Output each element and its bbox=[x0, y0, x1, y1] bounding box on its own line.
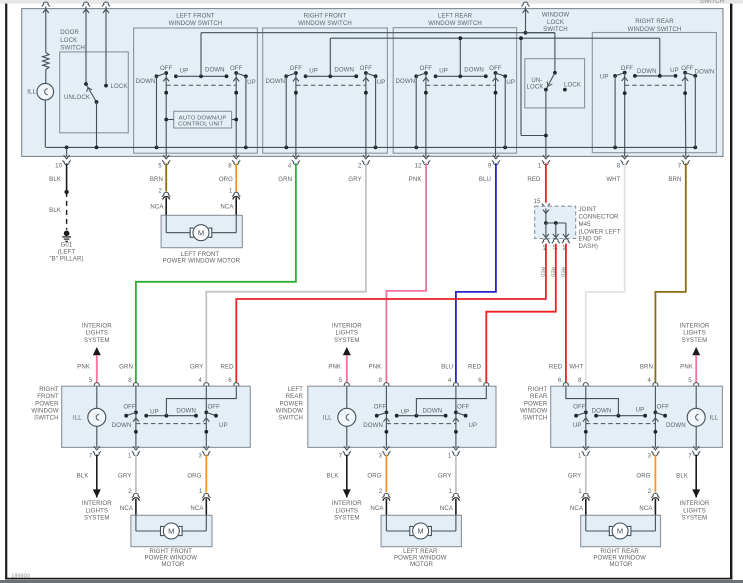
RR left pole contact bbox=[584, 411, 588, 415]
svg-text:RED: RED bbox=[527, 176, 541, 183]
LF switch mechanical link bbox=[166, 84, 236, 86]
svg-text:3: 3 bbox=[198, 452, 202, 459]
window lock branch junction bbox=[519, 36, 523, 40]
svg-text:POWER: POWER bbox=[524, 400, 548, 407]
LR pin 1 bbox=[453, 446, 459, 450]
svg-text:LIGHTS: LIGHTS bbox=[683, 330, 706, 337]
svg-text:DOWN: DOWN bbox=[464, 66, 484, 73]
svg-text:M: M bbox=[168, 527, 174, 536]
svg-text:BLK: BLK bbox=[49, 176, 61, 183]
assembly pin 9 at x=495.9 bbox=[493, 155, 499, 159]
svg-text:1: 1 bbox=[199, 488, 203, 495]
assembly pin 2 at x=365.9 bbox=[363, 155, 369, 159]
RF left pole arrow bbox=[133, 418, 139, 422]
svg-text:DOWN: DOWN bbox=[176, 408, 196, 415]
svg-text:DOWN: DOWN bbox=[265, 78, 285, 85]
window lock bottom contact bbox=[544, 88, 548, 92]
LR switch left pole contact bbox=[424, 71, 428, 75]
window lock feed wire bbox=[525, 9, 527, 33]
joint connector internal feed bbox=[543, 210, 549, 214]
LR motor wiring bbox=[385, 515, 387, 531]
control unit right dot bbox=[234, 118, 238, 122]
RF feed riser bbox=[166, 386, 236, 416]
RR right up contact bbox=[674, 74, 678, 78]
RF switch right pole wire bbox=[365, 73, 367, 156]
wire RED joint to RF switch bbox=[236, 244, 546, 384]
RR motor NCA wire right bbox=[654, 499, 656, 516]
svg-text:2: 2 bbox=[358, 162, 362, 169]
svg-text:8: 8 bbox=[379, 377, 383, 384]
left page border bbox=[5, 4, 7, 580]
svg-text:OFF: OFF bbox=[207, 404, 220, 411]
top connector pin unlock bbox=[82, 2, 90, 6]
RR left pole contact bbox=[623, 71, 627, 75]
RF switch right down contact bbox=[354, 74, 358, 78]
svg-text:1: 1 bbox=[229, 187, 233, 194]
svg-text:6: 6 bbox=[558, 377, 562, 384]
wire GRY LR to motor bbox=[455, 455, 457, 493]
svg-text:PNK: PNK bbox=[680, 363, 693, 370]
interior lights system RF bottom bbox=[96, 455, 98, 498]
RR left up contact bbox=[613, 74, 617, 78]
wire RED joint to LR switch bbox=[486, 244, 556, 384]
wire BLK dashed to ground bbox=[66, 192, 68, 230]
svg-text:ILL: ILL bbox=[73, 415, 82, 422]
svg-text:ILL: ILL bbox=[323, 415, 332, 422]
LR left pole dot bbox=[385, 430, 389, 434]
door lock switch output wire bbox=[96, 102, 98, 147]
LF switch right pole dot bbox=[234, 91, 238, 95]
ground bus wire bbox=[46, 146, 696, 148]
wire WHT pin8 to RR switch bbox=[586, 163, 625, 383]
svg-text:WINDOW: WINDOW bbox=[31, 408, 58, 415]
RF ILL wire bbox=[96, 386, 98, 447]
RR left pole dot bbox=[623, 91, 627, 95]
svg-text:UP: UP bbox=[469, 422, 478, 429]
bus junction LR up bbox=[503, 146, 507, 150]
svg-text:4: 4 bbox=[198, 377, 202, 384]
wire BRN pin7 to RR switch bbox=[655, 163, 685, 383]
svg-text:SYSTEM: SYSTEM bbox=[682, 514, 708, 521]
RR feed riser bbox=[566, 386, 619, 416]
ground splice bbox=[64, 190, 68, 194]
svg-text:WINDOW: WINDOW bbox=[520, 408, 547, 415]
svg-text:2: 2 bbox=[128, 488, 132, 495]
LR right pole contact bbox=[454, 411, 458, 415]
RF common contact A bbox=[144, 414, 148, 418]
svg-text:WINDOW SWITCH: WINDOW SWITCH bbox=[428, 20, 482, 27]
RF left lever bbox=[126, 412, 136, 415]
RF right pole contact bbox=[204, 411, 208, 415]
bottom gray strip bbox=[0, 580, 743, 583]
motor M RR bbox=[609, 526, 612, 535]
svg-text:RED: RED bbox=[221, 363, 235, 370]
RR right lever contact bbox=[663, 414, 667, 418]
assembly pin 5 at x=166.2 bbox=[163, 155, 169, 159]
illumination resistor bbox=[45, 9, 47, 53]
svg-text:OFF: OFF bbox=[420, 65, 433, 72]
LR ILL lamp bbox=[338, 408, 356, 426]
svg-text:DOWN: DOWN bbox=[112, 422, 132, 429]
LR common contact A bbox=[395, 414, 399, 418]
RF switch right pole arrow bbox=[363, 78, 369, 82]
window lock switch box bbox=[525, 59, 585, 108]
LR pin 3 bbox=[383, 446, 389, 450]
svg-text:GRY: GRY bbox=[568, 472, 581, 479]
svg-text:BRN: BRN bbox=[150, 176, 163, 183]
assembly pin 4 at x=295.9 bbox=[293, 155, 299, 159]
RR ILL lamp bbox=[687, 408, 705, 426]
svg-text:INTERIOR: INTERIOR bbox=[332, 322, 362, 329]
svg-text:UP: UP bbox=[377, 79, 386, 86]
svg-text:OFF: OFF bbox=[573, 404, 586, 411]
RR power window switch box bbox=[551, 386, 723, 447]
svg-text:RIGHT: RIGHT bbox=[39, 386, 59, 393]
svg-text:SWITCH: SWITCH bbox=[700, 0, 724, 5]
RR common contact B bbox=[643, 414, 647, 418]
RR mechanical link bbox=[586, 423, 656, 425]
svg-text:15: 15 bbox=[534, 198, 541, 205]
svg-text:5: 5 bbox=[339, 377, 343, 384]
svg-text:INTERIOR: INTERIOR bbox=[332, 500, 362, 507]
LR switch left down contact bbox=[414, 74, 418, 78]
wire BLU pin9 to LR switch bbox=[456, 163, 496, 383]
RR mechanical link bbox=[625, 84, 685, 86]
control unit right stub bbox=[232, 119, 237, 121]
svg-text:GRN: GRN bbox=[278, 176, 292, 183]
svg-text:BRN: BRN bbox=[668, 176, 681, 183]
svg-text:7: 7 bbox=[688, 452, 692, 459]
svg-text:UP: UP bbox=[600, 74, 609, 81]
svg-text:LEFT FRONT: LEFT FRONT bbox=[176, 13, 215, 20]
svg-text:OFF: OFF bbox=[457, 404, 470, 411]
RF mechanical link bbox=[136, 423, 206, 425]
svg-text:NCA: NCA bbox=[440, 505, 454, 512]
LR left lever contact bbox=[375, 414, 379, 418]
svg-text:UP: UP bbox=[670, 67, 679, 74]
control unit left stub bbox=[166, 119, 174, 121]
svg-text:RIGHT FRONT: RIGHT FRONT bbox=[304, 13, 347, 20]
wire GRY RF to motor bbox=[135, 455, 137, 493]
svg-text:LEFT: LEFT bbox=[288, 386, 303, 393]
LR motor NCA wire right bbox=[455, 499, 457, 516]
svg-text:NCA: NCA bbox=[150, 203, 164, 210]
LR switch left pole dot bbox=[424, 91, 428, 95]
bus junction RF down bbox=[284, 146, 288, 150]
svg-text:4: 4 bbox=[448, 377, 452, 384]
svg-text:WINDOW SWITCH: WINDOW SWITCH bbox=[169, 20, 223, 27]
feed rail 1 junction bbox=[524, 31, 528, 35]
LR right lever contact bbox=[464, 414, 468, 418]
svg-text:UP: UP bbox=[506, 79, 515, 86]
top connector pin lock bbox=[102, 2, 110, 6]
assembly pin 8 at x=236.2 bbox=[233, 155, 239, 159]
svg-text:BRN: BRN bbox=[640, 363, 653, 370]
assembly pin 12 at x=426.1 bbox=[423, 155, 429, 159]
bus junction RR up bbox=[613, 146, 617, 150]
RF switch mechanical link bbox=[296, 84, 366, 86]
RR ILL wire bbox=[695, 386, 697, 447]
left rear window switch box bbox=[393, 28, 516, 154]
svg-text:ORG: ORG bbox=[219, 176, 233, 183]
svg-text:SYSTEM: SYSTEM bbox=[84, 514, 110, 521]
svg-text:1: 1 bbox=[538, 162, 542, 169]
RF motor wiring bbox=[135, 515, 137, 531]
RF right pole wire bbox=[205, 386, 207, 447]
bus junction RR down bbox=[693, 146, 697, 150]
LR switch mechanical link bbox=[426, 84, 496, 86]
svg-text:RED: RED bbox=[549, 363, 563, 370]
feed rail 1 bbox=[201, 32, 555, 34]
svg-text:NCA: NCA bbox=[190, 505, 204, 512]
svg-text:UP: UP bbox=[247, 79, 256, 86]
RR motor NCA wire left bbox=[585, 499, 587, 516]
LR switch left switch lever bbox=[416, 73, 426, 76]
svg-text:(LEFT: (LEFT bbox=[58, 249, 76, 256]
RF switch riser junction bbox=[328, 74, 332, 78]
RR down contact wire bbox=[694, 76, 696, 147]
top connector pin illumination feed bbox=[42, 2, 50, 6]
auto down/up control unit box bbox=[174, 111, 232, 128]
svg-text:OFF: OFF bbox=[621, 65, 634, 72]
svg-text:DOOR: DOOR bbox=[60, 29, 79, 36]
svg-text:PNK: PNK bbox=[409, 176, 422, 183]
svg-text:2: 2 bbox=[379, 488, 383, 495]
RR right pole wire bbox=[684, 73, 687, 157]
wire GRN pin4 to RF switch bbox=[136, 163, 296, 383]
RR riser junction bbox=[617, 414, 621, 418]
svg-text:CONNECTOR: CONNECTOR bbox=[579, 214, 620, 221]
svg-text:1: 1 bbox=[578, 452, 582, 459]
svg-text:12: 12 bbox=[415, 162, 422, 169]
RR right pole dot bbox=[683, 91, 687, 95]
svg-text:ORG: ORG bbox=[187, 472, 201, 479]
svg-text:ILL: ILL bbox=[710, 415, 719, 422]
svg-text:M: M bbox=[417, 527, 423, 536]
left front window switch box bbox=[134, 28, 258, 153]
LR ILL wire bbox=[346, 386, 348, 447]
svg-text:OFF: OFF bbox=[123, 404, 136, 411]
RR right pole dot bbox=[654, 430, 658, 434]
RR right pole wire bbox=[654, 386, 656, 447]
RF left pole wire bbox=[135, 386, 137, 447]
svg-text:8: 8 bbox=[128, 377, 132, 384]
bus junction LF up bbox=[244, 146, 248, 150]
svg-text:JOINT: JOINT bbox=[579, 206, 597, 213]
svg-text:RED: RED bbox=[561, 267, 566, 278]
LF switch right up contact bbox=[244, 74, 248, 78]
svg-text:OFF: OFF bbox=[657, 404, 670, 411]
wire ORG pin8 to LF motor bbox=[235, 163, 237, 191]
assembly pin 8 at x=624.7 bbox=[622, 155, 628, 159]
svg-text:LIGHTS: LIGHTS bbox=[335, 330, 358, 337]
svg-text:DOWN: DOWN bbox=[592, 408, 612, 415]
svg-text:ILL: ILL bbox=[27, 89, 36, 96]
svg-text:MOTOR: MOTOR bbox=[410, 561, 434, 568]
LR switch up contact bbox=[434, 74, 438, 78]
svg-text:WINDOW SWITCH: WINDOW SWITCH bbox=[628, 26, 682, 33]
svg-text:WINDOW: WINDOW bbox=[276, 408, 303, 415]
svg-text:BLU: BLU bbox=[479, 176, 491, 183]
svg-text:REAR: REAR bbox=[530, 393, 548, 400]
RF switch left pole contact bbox=[294, 71, 298, 75]
RR pin 7 bbox=[693, 446, 699, 450]
svg-text:GRY: GRY bbox=[348, 176, 361, 183]
svg-text:UP: UP bbox=[180, 68, 189, 75]
ground G01 bbox=[64, 231, 70, 237]
LR switch right pole wire bbox=[495, 73, 497, 156]
LR switch right pole contact bbox=[494, 71, 498, 75]
RR up contact wire bbox=[614, 76, 616, 147]
main window switch assembly box bbox=[22, 9, 723, 157]
motor M RF bbox=[161, 526, 164, 535]
wire RED pin1 to joint connector bbox=[545, 163, 547, 202]
wire RED joint to RR switch bbox=[565, 244, 567, 384]
interior lights system LR bottom bbox=[346, 455, 348, 498]
svg-text:3: 3 bbox=[379, 452, 383, 459]
svg-text:OFF: OFF bbox=[290, 65, 303, 72]
svg-text:"B" PILLAR): "B" PILLAR) bbox=[49, 256, 83, 263]
RF switch right pole dot bbox=[364, 91, 368, 95]
LF switch down contact wire bbox=[156, 76, 158, 147]
window lock top contact bbox=[553, 71, 557, 75]
top gray strip bbox=[0, 0, 743, 4]
RF motor NCA wire right bbox=[205, 499, 207, 516]
wire ORG LR to motor bbox=[385, 455, 387, 493]
RF common contact B bbox=[194, 414, 198, 418]
right rear power window motor box bbox=[581, 515, 661, 546]
LF motor NCA wire left bbox=[165, 198, 167, 216]
svg-text:LIGHTS: LIGHTS bbox=[85, 330, 108, 337]
svg-text:UP: UP bbox=[309, 68, 318, 75]
right front window switch box bbox=[263, 28, 388, 153]
wire GRY pin2 to RF switch bbox=[206, 163, 366, 383]
window lock output junction bbox=[544, 134, 548, 138]
RF power window switch box bbox=[62, 386, 251, 447]
svg-text:SYSTEM: SYSTEM bbox=[84, 337, 110, 344]
pin 10 ground exit wire bbox=[66, 147, 68, 156]
assembly pin 1 at x=545.9 bbox=[543, 155, 549, 159]
LR left pole arrow bbox=[383, 418, 389, 422]
RF common wire bbox=[146, 415, 196, 417]
svg-text:PNK: PNK bbox=[369, 363, 382, 370]
svg-text:UP: UP bbox=[219, 422, 228, 429]
RF switch left pole dot bbox=[294, 91, 298, 95]
RR left down contact bbox=[633, 74, 637, 78]
RR switch common wire bbox=[635, 75, 676, 77]
svg-text:LOCK: LOCK bbox=[527, 84, 544, 91]
bus junction door lock bbox=[95, 146, 99, 150]
svg-text:POWER: POWER bbox=[35, 400, 59, 407]
RF riser junction bbox=[165, 414, 169, 418]
RR right lever bbox=[655, 412, 665, 415]
svg-text:CONTROL UNIT: CONTROL UNIT bbox=[178, 121, 223, 127]
svg-text:WHT: WHT bbox=[569, 363, 583, 370]
LR right pole wire bbox=[455, 386, 457, 447]
LF switch left pole dot bbox=[164, 91, 168, 95]
joint connector branch 14 bbox=[545, 223, 547, 237]
LF switch riser junction bbox=[199, 74, 203, 78]
RR left pole wire bbox=[585, 386, 587, 447]
LR feed riser bbox=[416, 386, 486, 416]
svg-text:SWITCH: SWITCH bbox=[60, 45, 85, 52]
joint pin 16 bbox=[562, 239, 570, 243]
svg-text:DOWN: DOWN bbox=[334, 66, 354, 73]
wire ORG RR to motor bbox=[654, 455, 656, 493]
svg-text:5: 5 bbox=[89, 377, 93, 384]
svg-text:8: 8 bbox=[617, 162, 621, 169]
LOCK position contact bbox=[563, 88, 567, 92]
svg-text:GRY: GRY bbox=[190, 363, 203, 370]
LR switch right up contact bbox=[503, 74, 507, 78]
control unit left dot bbox=[164, 118, 168, 122]
door lock switch box bbox=[60, 52, 129, 133]
LR switch down contact wire bbox=[415, 76, 417, 147]
LR power window switch box bbox=[308, 386, 496, 447]
LR riser junction bbox=[415, 414, 419, 418]
svg-text:M: M bbox=[198, 228, 204, 237]
RF motor NCA wire left bbox=[135, 499, 137, 516]
svg-text:1: 1 bbox=[448, 488, 452, 495]
LR switch right pole arrow bbox=[493, 78, 499, 82]
RF switch down contact wire bbox=[285, 76, 287, 147]
svg-text:GRY: GRY bbox=[118, 472, 131, 479]
RR right lever bbox=[685, 73, 695, 76]
svg-text:OFF: OFF bbox=[230, 65, 243, 72]
LF switch common wire bbox=[176, 75, 227, 77]
svg-text:PNK: PNK bbox=[328, 363, 341, 370]
RF pin 7 bbox=[94, 446, 100, 450]
LR switch riser junction bbox=[458, 74, 462, 78]
window lock branch wire bbox=[520, 38, 522, 135]
svg-text:DOWN: DOWN bbox=[423, 408, 443, 415]
svg-text:BLK: BLK bbox=[77, 472, 89, 479]
LF switch up contact bbox=[174, 74, 178, 78]
joint pin 14 bbox=[542, 239, 550, 243]
bus junction LF down bbox=[155, 146, 159, 150]
svg-text:3: 3 bbox=[648, 452, 652, 459]
svg-text:UP: UP bbox=[439, 68, 448, 75]
svg-text:RED: RED bbox=[551, 267, 556, 278]
bus junction RF up bbox=[374, 146, 378, 150]
svg-text:DOWN: DOWN bbox=[363, 422, 383, 429]
RF switch left pole wire bbox=[295, 73, 297, 156]
RF left pole dot bbox=[134, 430, 138, 434]
LF switch left pole wire bbox=[165, 73, 167, 156]
LR right pole arrow bbox=[453, 418, 459, 422]
svg-text:WHT: WHT bbox=[606, 176, 620, 183]
LF switch right down contact bbox=[225, 74, 229, 78]
RF left lever contact bbox=[124, 414, 128, 418]
LF switch left pole contact bbox=[164, 71, 168, 75]
LF switch left down contact bbox=[155, 74, 159, 78]
joint connector branch 17 bbox=[555, 223, 557, 237]
svg-text:5: 5 bbox=[158, 162, 162, 169]
RR right down contact bbox=[693, 74, 697, 78]
joint connector branch 16 bbox=[565, 223, 567, 237]
illumination lamp ILL bbox=[45, 70, 47, 84]
svg-text:UP: UP bbox=[401, 408, 410, 415]
svg-text:NCA: NCA bbox=[570, 505, 584, 512]
RF switch left switch lever bbox=[286, 73, 296, 76]
RR common contact A bbox=[594, 414, 598, 418]
svg-text:PNK: PNK bbox=[77, 363, 90, 370]
lock contact bbox=[104, 84, 108, 88]
LR pin 7 bbox=[344, 446, 350, 450]
svg-text:SYSTEM: SYSTEM bbox=[334, 337, 360, 344]
svg-text:7: 7 bbox=[89, 452, 93, 459]
wire PNK pin12 to LR switch bbox=[386, 163, 426, 383]
